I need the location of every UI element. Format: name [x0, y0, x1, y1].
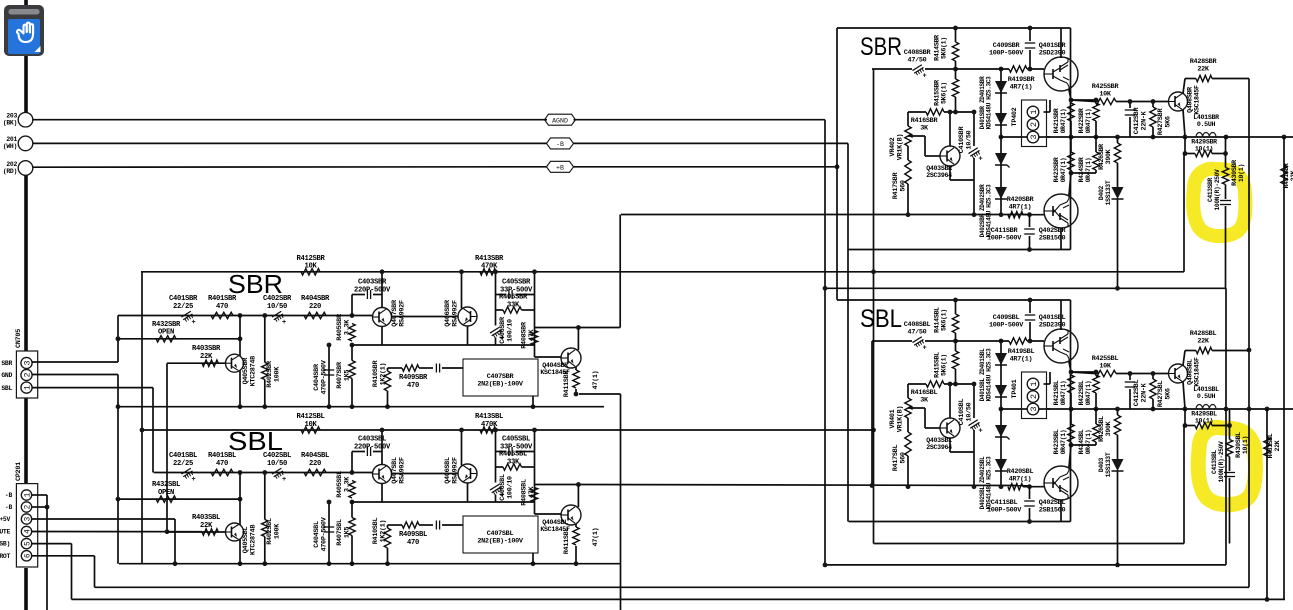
junction main row x352 SBL — [350, 470, 355, 475]
label R402SBR — [266, 360, 281, 388]
wire Q408SBL emitter — [1183, 382, 1185, 410]
svg-text:R409SBR: R409SBR — [399, 374, 428, 382]
junction C408SBL drop — [870, 483, 875, 488]
svg-text:R426SBL: R426SBL — [1098, 416, 1105, 442]
wire R432SBR row — [118, 338, 240, 340]
junction Q406SBR rail — [459, 269, 464, 274]
resistor R402SBL 100K — [262, 520, 268, 537]
wire Q404SBR collector riser — [577, 328, 579, 351]
svg-text:R404SBR: R404SBR — [301, 295, 330, 303]
resistor R422SBL 0R47(1) — [1093, 375, 1099, 393]
label R403SBL — [192, 514, 220, 530]
wire pin6 down — [94, 556, 96, 588]
wire -B tag to rail — [574, 142, 849, 144]
wire pin1 down — [46, 495, 48, 507]
diode D402SBR KDS4148U — [995, 187, 1007, 199]
svg-text:OPEN: OPEN — [158, 329, 174, 337]
resistor R410SBR 1K2(1) — [384, 371, 390, 391]
junction R407SBR rail — [350, 404, 355, 409]
label R417SBL — [892, 445, 907, 472]
junction rail r422 SBL — [1094, 407, 1099, 412]
wire Q402SBR collector — [1060, 228, 1062, 250]
capacitor C412SBL 22N-K — [1129, 374, 1131, 381]
svg-text:+: + — [979, 156, 983, 164]
label R416SBL — [911, 389, 938, 404]
label R427SBR — [1157, 108, 1172, 136]
wire R429SBL stubs — [1184, 409, 1186, 426]
label Q402SBL — [1039, 499, 1066, 514]
connector CN705 box — [16, 351, 37, 398]
svg-text:3: 3 — [24, 516, 32, 521]
svg-text:Q408SBR: Q408SBR — [1187, 87, 1194, 113]
svg-text:R414SBR: R414SBR — [934, 35, 941, 61]
junction C408SBL R41x — [953, 339, 958, 344]
transistor Q402SBR 2SB1560 — [1044, 194, 1078, 228]
svg-text:22N-K: 22N-K — [1140, 382, 1148, 402]
svg-text:R432SBR: R432SBR — [152, 321, 181, 329]
svg-text:47K: 47K — [528, 329, 536, 342]
wire C407 box down — [532, 553, 534, 564]
transistor Q404SBR KSC1845F — [561, 348, 581, 368]
wire Q402SBL emitter node — [1071, 444, 1096, 446]
svg-text:4R7(1): 4R7(1) — [1009, 475, 1032, 483]
label GND — [1, 372, 12, 379]
wire +B vertical rail x837 (right SBR box left edge) — [836, 28, 838, 300]
connector CP201 box — [16, 484, 37, 567]
junction C405 left SBR — [493, 269, 498, 274]
resistor R406SBL 33K — [503, 464, 522, 470]
capacitor C412SBR 22N-K — [1129, 102, 1131, 109]
label R420SBR — [1007, 196, 1035, 211]
junction R402SBL rail — [262, 561, 267, 566]
label L401SBL — [1193, 386, 1219, 400]
resistor R407SBL 1K5 — [349, 518, 355, 536]
resistor R401SBL 470 — [211, 469, 233, 475]
capacitor C411SBR 100P-500V — [1029, 215, 1031, 227]
label D40xSBL — [1098, 452, 1112, 477]
label R426SBL — [1098, 416, 1112, 442]
resistor R431SBL 22K — [1264, 437, 1270, 456]
label 202(RD) — [3, 161, 18, 175]
junction rail r422 SBR — [1094, 135, 1099, 140]
highlight ring around C413SBR — [1193, 169, 1245, 236]
wire Q408SBR emitter — [1183, 110, 1185, 138]
label R411SBR value — [592, 371, 600, 390]
resistor R422SBR 0R47(1) — [1093, 103, 1099, 121]
wire C403SBR left stub — [351, 295, 353, 316]
resistor R403SBR 22K — [202, 360, 218, 366]
label 201(WH) — [3, 136, 18, 150]
label C404SBR — [313, 359, 328, 394]
junction R417SBL bottom — [906, 484, 911, 489]
label C411SBR — [987, 227, 1022, 242]
wire emitter row y-mid2 — [352, 501, 535, 503]
svg-text:220P-500V: 220P-500V — [354, 443, 391, 451]
junction AGND y565 — [823, 563, 828, 568]
wire Q404SBR base — [535, 356, 562, 358]
junction R402SBL top — [262, 470, 267, 475]
wire Q408SBR collector — [1183, 79, 1185, 94]
svg-text:+: + — [192, 476, 196, 484]
svg-text:D403: D403 — [1098, 457, 1105, 472]
wire -B feed down x47 — [46, 507, 48, 610]
svg-text:OPEN: OPEN — [158, 489, 174, 497]
junction R429SBL right — [1227, 423, 1232, 428]
svg-text:10K: 10K — [304, 421, 317, 429]
svg-text:0R47(1): 0R47(1) — [1060, 158, 1067, 183]
junction C411SBR top — [1027, 212, 1032, 217]
junction R411SBL rail — [574, 561, 579, 566]
junction rail x1185 SBL — [1183, 407, 1188, 412]
junction R411SBR node — [574, 392, 579, 397]
capacitor C404SBL 470P-500V — [328, 502, 330, 564]
resistor R429SBL 10(1) — [1195, 422, 1212, 428]
junction mute riser pin4 — [165, 529, 170, 534]
wire R420SBL to base — [1023, 486, 1044, 488]
svg-text:+: + — [282, 476, 286, 484]
svg-text:PROT: PROT — [0, 553, 10, 560]
wire R416SBL row — [908, 383, 926, 385]
connector pin 201 (WH) — [18, 136, 33, 151]
svg-text:VR1K(B): VR1K(B) — [896, 406, 904, 432]
wire Q404SBR emitter node — [575, 389, 577, 394]
svg-text:47(1): 47(1) — [592, 528, 600, 547]
junction C409SBL bottom — [1028, 339, 1033, 344]
resistor R431SBR 22K — [1281, 165, 1287, 184]
label 203(BK) — [3, 113, 18, 127]
wire R409 row — [388, 367, 403, 369]
junction R410SBR rail — [385, 404, 390, 409]
svg-text:R430SBR: R430SBR — [1231, 160, 1238, 186]
diode ZD401SBL HZS3C3 — [995, 425, 1007, 437]
svg-text:100N(R)-250V: 100N(R)-250V — [1218, 441, 1225, 483]
junction rail x1226 SBR — [1224, 135, 1229, 140]
svg-text:L401SBR: L401SBR — [1193, 114, 1219, 121]
resistor R412SBL 10K — [301, 427, 320, 433]
transistor Q404SBL KSC1845F — [561, 505, 581, 525]
svg-text:SBR: SBR — [860, 33, 902, 61]
wire AGND tag to rail — [574, 119, 826, 121]
wire C407 box down — [532, 396, 534, 407]
svg-text:R401SBR: R401SBR — [208, 295, 237, 303]
svg-text:R432SBL: R432SBL — [152, 481, 180, 489]
svg-text:10(1): 10(1) — [1195, 418, 1213, 425]
svg-text:R412SBL: R412SBL — [296, 413, 324, 421]
wire SBL feedback x873 down — [873, 272, 875, 544]
svg-text:3: 3 — [1029, 134, 1039, 139]
svg-text:CP201: CP201 — [15, 462, 23, 481]
label C403SBL — [354, 436, 391, 452]
svg-text:R430SBL: R430SBL — [1235, 432, 1242, 458]
resistor R413SBL 470K — [480, 427, 496, 433]
label R408SBL — [521, 479, 536, 506]
svg-text:100P-500V: 100P-500V — [989, 321, 1024, 329]
wire Q407SBR lower stub — [381, 327, 383, 346]
label R414SBR — [934, 35, 948, 61]
wire R403SBL row — [167, 531, 226, 533]
component C407SBR 2N2(EB)-100V box — [463, 359, 538, 396]
label C405SBR — [500, 279, 533, 295]
label R432SBR — [152, 321, 181, 337]
svg-text:(BK): (BK) — [3, 120, 17, 127]
wire pin2 feed — [32, 374, 118, 376]
svg-text:201: 201 — [6, 136, 17, 143]
svg-text:4R7(1): 4R7(1) — [1010, 355, 1033, 363]
label R423SBR — [1053, 157, 1067, 182]
wire base link Q407-Q406 — [391, 316, 458, 318]
wire CN705 pin3 feed — [32, 361, 118, 363]
wire CP201 pin1 — [32, 494, 47, 496]
junction pin1/pin2 — [45, 505, 50, 510]
label Q404SBR — [540, 362, 570, 376]
wire SBL output rail — [999, 408, 1293, 410]
label Q405SBR — [242, 356, 257, 386]
svg-text:470P-500V: 470P-500V — [320, 516, 328, 551]
diode D401SBR KDS4148U — [995, 81, 1007, 93]
wire SBR output rail y272 — [141, 271, 1184, 273]
junction Q404SBL collector node — [576, 482, 581, 487]
label cp2 — [5, 504, 13, 511]
junction C410SBL top — [972, 382, 977, 387]
svg-text:0.5UH: 0.5UH — [1197, 393, 1216, 400]
svg-text:+: + — [282, 319, 286, 327]
svg-text:22/25: 22/25 — [173, 303, 193, 311]
connector pin 203 (BK) — [18, 112, 33, 127]
wire base row to diode chain SBL — [956, 340, 1010, 342]
svg-text:TP402: TP402 — [1011, 107, 1019, 126]
wire -B pin to tag — [33, 142, 547, 144]
junction x534 SBR — [532, 269, 537, 274]
left bus bar segment CN705 to CP201 — [24, 398, 28, 484]
wire SBL feedback y543 — [874, 543, 1185, 545]
junction C411SBR bottom — [1027, 247, 1032, 252]
junction C409SBR top — [1028, 26, 1033, 31]
svg-text:560: 560 — [899, 180, 907, 192]
junction C407 box rail — [531, 404, 536, 409]
resistor R410SBL 1K2(1) — [384, 528, 390, 548]
junction R407SBL rail — [350, 561, 355, 566]
label R403SBR — [192, 345, 221, 361]
left bus bar segment pins to CN705 — [24, 176, 28, 352]
label C411SBL — [987, 499, 1022, 514]
label R428SBL — [1190, 330, 1217, 345]
resistor R401SBR 470 — [211, 312, 233, 318]
wire C405/R406 left riser — [495, 430, 497, 483]
transistor Q407SBL RSA992F — [373, 465, 392, 484]
wire Q404SBL base — [535, 513, 562, 515]
label CN705 — [15, 329, 23, 348]
svg-text:R413SBL: R413SBL — [475, 413, 503, 421]
label L401SBR — [1193, 114, 1219, 128]
resistor R403SBL 22K — [202, 529, 218, 535]
wire C408SBR drop x874 — [873, 69, 875, 272]
label R411SBR — [563, 370, 571, 398]
resistor R421SBR 0R47(1) — [1068, 103, 1074, 121]
junction x118 r432 — [116, 336, 121, 341]
label C410SBR — [958, 126, 973, 154]
junction main row x240 SBL — [238, 470, 243, 475]
svg-text:0R47(1): 0R47(1) — [1085, 430, 1092, 455]
wire SBL input row — [154, 472, 372, 474]
label C407SBR — [477, 373, 524, 388]
capacitor C405SBR 33P-500V — [496, 294, 506, 296]
capacitor C408b SBR — [435, 364, 437, 373]
resistor R409SBL 470 — [402, 522, 419, 528]
wire C405/R406 right riser — [534, 430, 536, 514]
svg-text:R409SBL: R409SBL — [399, 531, 427, 539]
label C409SBR — [989, 42, 1024, 57]
junction R427SBL top — [1151, 371, 1156, 376]
svg-text:220: 220 — [309, 460, 321, 468]
svg-text:5K6(1): 5K6(1) — [941, 309, 948, 331]
diode D402 1SS133T — [1117, 163, 1119, 187]
capacitor C408b SBL — [435, 521, 437, 530]
svg-text:R413SBR: R413SBR — [475, 255, 504, 263]
label R401SBR — [208, 295, 237, 311]
svg-text:MUTE: MUTE — [0, 529, 10, 536]
wire x118 down — [117, 375, 119, 564]
transistor Q405SBL KTC2874B — [226, 523, 244, 541]
label cp1 — [5, 492, 13, 499]
svg-text:D402: D402 — [1098, 185, 1105, 200]
label R414SBL — [934, 307, 948, 333]
wire +B tag to rail — [574, 166, 838, 168]
svg-text:1: 1 — [1029, 109, 1039, 114]
net tag -B — [547, 138, 574, 149]
svg-text:203: 203 — [6, 113, 17, 120]
junction R431SBL bottom — [1265, 597, 1270, 602]
junction Q405SBR emitter rail — [238, 404, 243, 409]
svg-text:1K2(1): 1K2(1) — [379, 520, 387, 543]
svg-text:(WH): (WH) — [3, 143, 17, 150]
junction C410SBR top — [972, 110, 977, 115]
svg-text:Q404SBL: Q404SBL — [542, 519, 568, 526]
resistor R425SBR 10K — [1095, 98, 1116, 104]
wire C405/R406 left riser — [495, 272, 497, 326]
label C402SBR — [263, 295, 292, 311]
label TP401 — [1011, 379, 1019, 398]
svg-text:470: 470 — [407, 539, 419, 547]
wire R428SBL wires — [1185, 350, 1196, 352]
svg-text:3.3K: 3.3K — [343, 476, 351, 492]
svg-text:100P-500V: 100P-500V — [987, 506, 1022, 514]
wire SBR collector feed corner — [578, 327, 620, 329]
component C407SBL 2N2(EB)-100V box — [463, 516, 538, 553]
resistor R430SBL 10(1) — [1226, 440, 1232, 457]
svg-text:1: 1 — [23, 385, 33, 390]
svg-text:10/50: 10/50 — [965, 130, 973, 149]
resistor R425SBL 10K — [1095, 370, 1116, 376]
junction C404SBL top — [327, 500, 332, 505]
svg-text:10/50: 10/50 — [267, 303, 287, 311]
svg-text:1: 1 — [1029, 381, 1039, 386]
transistor Q406SBR RSA992F — [458, 307, 477, 326]
wire Q403SBR base — [908, 135, 925, 137]
svg-text:R424SBR: R424SBR — [1078, 157, 1085, 182]
label C401SBR — [169, 295, 198, 311]
capacitor C404SBR 470P-500V — [328, 345, 330, 407]
junction rail x1284 SBL — [1265, 407, 1270, 412]
wire AGND pin to tag — [33, 119, 547, 121]
wire R411SBL to rail — [575, 546, 577, 564]
svg-text:2SC3964: 2SC3964 — [926, 172, 952, 179]
transistor Q402SBL 2SB1560 — [1044, 466, 1078, 500]
resistor R404SBL 220 — [304, 469, 326, 475]
svg-text:RSA992F: RSA992F — [451, 457, 459, 484]
testpoint TP402 — [1022, 100, 1047, 147]
capacitor C405SBL 33P-500V — [496, 451, 506, 453]
svg-text:(RD): (RD) — [3, 168, 17, 175]
label R427SBL — [1157, 381, 1172, 408]
resistor R406SBR 33K — [503, 307, 522, 313]
wire Q403SBL base — [908, 407, 925, 409]
resistor R420SBL 4R7(1) — [1008, 484, 1023, 490]
svg-text:R431SBR: R431SBR — [1283, 163, 1290, 188]
label C402SBL — [263, 452, 291, 468]
junction R429SBL left — [1183, 423, 1188, 428]
junction Q407SBL rail — [380, 428, 385, 433]
label C413SBL — [1211, 441, 1225, 483]
diode D402SBL KDS4148U — [995, 459, 1007, 471]
wire left block edge x142 — [141, 272, 143, 564]
potentiometer VR401 VR1K(B) — [905, 398, 911, 418]
svg-text:R423SBR: R423SBR — [1053, 157, 1060, 182]
label D40xSBR — [1098, 180, 1112, 205]
label R407SBL — [336, 519, 351, 546]
svg-text:3: 3 — [23, 360, 33, 365]
svg-text:R406SBL: R406SBL — [499, 451, 527, 459]
svg-text:R421SBR: R421SBR — [1053, 108, 1060, 133]
wire AGND loop y288 — [825, 287, 1226, 289]
label Q402SBR — [1039, 227, 1067, 242]
svg-text:22K: 22K — [200, 353, 213, 361]
svg-text:CN705: CN705 — [15, 329, 23, 348]
resistor R424SBL 0R47(1) — [1093, 424, 1099, 442]
capacitor C406SBL 100/10 — [490, 484, 499, 490]
svg-text:10K: 10K — [1099, 90, 1112, 98]
svg-text:KSC1845F: KSC1845F — [1194, 357, 1201, 387]
junction R429SBR right — [1223, 151, 1228, 156]
wire Q407SBL collector drop — [381, 430, 383, 465]
wire Q401SBR collector — [1060, 28, 1062, 58]
junction chain mid SBL — [999, 407, 1004, 412]
junction D403 y565 — [1115, 563, 1120, 568]
svg-text:KTC2874B: KTC2874B — [249, 356, 257, 386]
junction Q405SBL emitter rail — [238, 561, 243, 566]
label R410SBR — [372, 360, 387, 388]
resistor R413SBR 470K — [480, 269, 496, 275]
label Q404SBL — [540, 519, 570, 533]
wire R425SBR row — [1071, 100, 1095, 102]
svg-text:2N2(EB)-100V: 2N2(EB)-100V — [477, 380, 524, 388]
junction C412SBR top — [1128, 99, 1133, 104]
junction x534 SBL — [532, 428, 537, 433]
svg-text:R422SBL: R422SBL — [1078, 380, 1085, 405]
svg-text:47K: 47K — [528, 486, 536, 499]
label R402SBL — [266, 518, 281, 545]
capacitor C410SBR 10/50 — [968, 148, 977, 154]
label R406SBL — [499, 451, 527, 467]
svg-text:100/10: 100/10 — [506, 476, 514, 499]
inductor L401SBL 0.5UH — [1196, 404, 1216, 409]
junction R414SBR top — [953, 26, 958, 31]
wire Q407SBR collector drop — [381, 272, 383, 308]
resistor R429SBR 10(1) — [1195, 150, 1212, 156]
svg-text:0R47(1): 0R47(1) — [1060, 430, 1067, 455]
svg-text:0R47(1): 0R47(1) — [1085, 381, 1092, 406]
label Q403SBR — [926, 165, 952, 179]
capacitor C408SBL 47/50 — [912, 337, 921, 343]
